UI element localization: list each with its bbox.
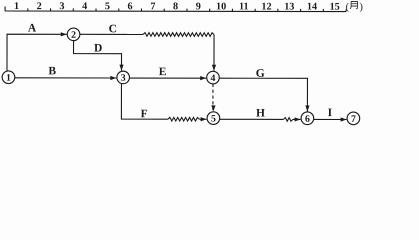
- svg-text:7: 7: [150, 1, 155, 12]
- svg-text:6: 6: [305, 114, 310, 125]
- svg-text:): ): [359, 2, 362, 13]
- svg-text:A: A: [28, 23, 37, 35]
- svg-text:7: 7: [351, 114, 356, 125]
- svg-text:I: I: [328, 107, 333, 119]
- svg-text:H: H: [256, 107, 265, 119]
- svg-text:8: 8: [173, 1, 178, 12]
- svg-text:5: 5: [211, 114, 216, 125]
- svg-text:C: C: [109, 23, 117, 35]
- svg-text:4: 4: [211, 73, 216, 84]
- svg-text:G: G: [256, 68, 265, 80]
- svg-text:E: E: [159, 66, 167, 78]
- svg-text:6: 6: [128, 1, 133, 12]
- svg-text:B: B: [48, 65, 56, 77]
- svg-text:15: 15: [330, 2, 340, 13]
- svg-text:3: 3: [121, 73, 126, 84]
- svg-text:3: 3: [59, 1, 64, 12]
- svg-text:11: 11: [239, 1, 249, 12]
- svg-text:(: (: [346, 2, 350, 13]
- svg-text:14: 14: [307, 2, 317, 13]
- svg-text:1: 1: [14, 1, 19, 12]
- svg-text:5: 5: [105, 1, 110, 12]
- svg-text:4: 4: [82, 1, 87, 12]
- svg-text:D: D: [94, 42, 102, 54]
- svg-text:1: 1: [6, 73, 11, 84]
- svg-text:2: 2: [37, 1, 42, 12]
- svg-text:2: 2: [71, 30, 76, 41]
- svg-text:12: 12: [261, 1, 271, 12]
- svg-text:10: 10: [216, 1, 226, 12]
- svg-text:13: 13: [284, 1, 294, 12]
- svg-text:F: F: [141, 108, 148, 120]
- svg-text:9: 9: [196, 1, 201, 12]
